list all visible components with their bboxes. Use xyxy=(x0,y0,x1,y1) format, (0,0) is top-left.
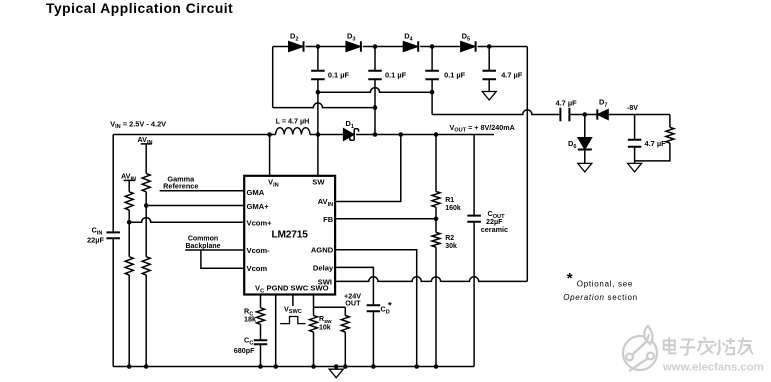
svg-text:OUT: OUT xyxy=(345,299,361,308)
wire COUT to bus xyxy=(473,223,475,367)
svg-text:LM2715: LM2715 xyxy=(272,230,309,241)
wire R2 to bus xyxy=(435,247,437,366)
wire divider1 mid xyxy=(145,192,147,257)
wire D7 anode to -8V rail xyxy=(608,114,670,116)
svg-text:Reference: Reference xyxy=(163,181,198,190)
resistor R2 30k xyxy=(432,232,440,247)
node FB divider tap xyxy=(434,217,439,222)
svg-text:Common: Common xyxy=(188,236,218,243)
svg-text:R1: R1 xyxy=(445,197,454,204)
wire divider2 to bus xyxy=(128,275,130,367)
node GMA+ tap xyxy=(144,203,149,208)
wire FB to divider xyxy=(335,218,436,220)
node VIN pin junction xyxy=(267,132,272,137)
resistor R1 160k xyxy=(432,192,440,208)
wire common backplane L to Vcom xyxy=(201,250,244,268)
wire cap C5 to ground xyxy=(488,80,490,92)
node PGND bus xyxy=(273,364,278,369)
wire R1 top xyxy=(435,135,437,192)
capacitor 0.1uF first xyxy=(311,71,325,80)
resistor divider2 lower xyxy=(125,257,133,275)
ground main bus xyxy=(329,369,343,378)
ground -8V cap xyxy=(628,163,642,172)
resistor +24V load xyxy=(341,316,349,333)
wire D6 to ground xyxy=(584,151,586,164)
svg-text:4.7 µF: 4.7 µF xyxy=(556,99,578,108)
wire CC to bus xyxy=(260,345,262,367)
svg-text:PGND SWC SWO: PGND SWC SWO xyxy=(267,284,329,293)
line B vout rail xyxy=(273,103,375,108)
svg-text:4.7 µF: 4.7 µF xyxy=(501,70,523,79)
wire RSW to bus xyxy=(313,332,315,367)
diode D7 xyxy=(597,109,608,119)
wire Vcom- common backplane xyxy=(185,249,244,251)
node line A right xyxy=(430,90,435,95)
inductor L 4.7uH xyxy=(276,128,310,135)
diode D6 xyxy=(578,138,592,150)
wire left rail lower xyxy=(112,239,114,367)
wire -8V rail corner down xyxy=(669,115,671,128)
wire SWO pin xyxy=(313,295,315,308)
node line A left xyxy=(316,90,321,95)
watermark chinese text dian zi fa shao you xyxy=(664,337,753,355)
diode D4 xyxy=(403,41,418,51)
SWC pulse waveform symbol xyxy=(280,317,306,324)
wire cap C2 top xyxy=(317,47,319,71)
resistor RSW 10k xyxy=(310,316,318,333)
node divider2 bus xyxy=(127,364,132,369)
node ground symbol bus xyxy=(334,364,339,369)
capacitor 4.7uF series xyxy=(560,108,569,122)
resistor divider1 lower xyxy=(142,257,150,275)
svg-text:-8V: -8V xyxy=(627,105,638,112)
node AVIN vout junction xyxy=(399,132,404,137)
wire AVIN2 stem xyxy=(128,180,130,191)
wire RC to CC xyxy=(260,324,262,339)
svg-text:Delay: Delay xyxy=(313,263,334,272)
capacitor 4.7uF -8V xyxy=(628,140,642,147)
wire PGND pin xyxy=(275,295,277,367)
wire ground symbol stem xyxy=(335,367,337,370)
diode D2 xyxy=(289,41,304,51)
wire D2 cathode to node xyxy=(306,46,346,48)
svg-text:160k: 160k xyxy=(445,205,461,212)
wire GMA gamma reference xyxy=(160,190,245,192)
wire cap C3 top xyxy=(374,47,376,71)
wire divider2 mid xyxy=(128,210,130,257)
capacitor 0.1uF third xyxy=(425,71,439,80)
watermark logo circle xyxy=(623,326,657,371)
node VC bus xyxy=(258,364,263,369)
wire D4 cathode to node xyxy=(420,46,460,48)
svg-text:ceramic: ceramic xyxy=(481,225,508,234)
svg-text:10k: 10k xyxy=(319,325,331,332)
node line B right xyxy=(373,105,378,110)
wire CD to bus xyxy=(372,312,374,367)
wire SWO to RSW xyxy=(313,307,315,315)
svg-text:30k: 30k xyxy=(445,243,457,250)
wire -8V cap to ground xyxy=(634,148,636,164)
diode D1 schottky xyxy=(343,128,354,140)
svg-text:4.7 µF: 4.7 µF xyxy=(645,139,667,148)
node vout-lineB junction xyxy=(373,132,378,137)
wire SWI xyxy=(335,277,527,282)
svg-text:FB: FB xyxy=(323,215,334,224)
wire inductor to SW node xyxy=(310,134,343,136)
node R1 vout junction xyxy=(434,132,439,137)
wire COUT top xyxy=(473,135,475,216)
wire D2 anode drop xyxy=(272,47,274,108)
resistor divider1 upper xyxy=(142,174,150,192)
wire AGND xyxy=(335,250,417,367)
svg-text:GMA+: GMA+ xyxy=(247,202,270,211)
capacitor CIN 22uF xyxy=(106,232,120,238)
wire AVIN1 stem xyxy=(145,144,147,174)
node R2 bus xyxy=(434,364,439,369)
node D2-D3 junction xyxy=(316,44,321,49)
wire AVIN pin to VOUT xyxy=(335,135,401,202)
svg-text:18k: 18k xyxy=(244,315,256,324)
svg-text:Vcom+: Vcom+ xyxy=(247,218,273,227)
svg-text:SW: SW xyxy=(312,177,325,186)
wire node to D6 xyxy=(584,115,586,138)
wire GMA+ tap xyxy=(146,205,244,207)
wire pump output to SWI riser xyxy=(526,47,528,282)
wire resistor return xyxy=(635,143,670,161)
svg-text:www.elecfans.com: www.elecfans.com xyxy=(662,362,764,374)
wire +24V load resistor top xyxy=(344,307,346,315)
wire top chain left segment xyxy=(273,46,289,48)
svg-text:R2: R2 xyxy=(445,235,454,242)
wire R1 bottom xyxy=(435,207,437,232)
wire Vcom+ tap xyxy=(129,218,244,223)
op-amp U1 LM2715 box xyxy=(244,176,335,295)
ground D6 xyxy=(578,163,592,172)
svg-text:AGND: AGND xyxy=(311,246,334,255)
svg-text:Operation section: Operation section xyxy=(563,293,638,302)
svg-text:Optional, see: Optional, see xyxy=(577,279,633,288)
svg-text:Backplane: Backplane xyxy=(185,243,220,250)
wire cap C2 bottom to line A xyxy=(317,80,319,92)
wire cap C4 top xyxy=(431,47,433,71)
AVIN flag bar 2 xyxy=(124,179,135,181)
diode D5 xyxy=(461,41,476,51)
svg-text:*: * xyxy=(567,270,573,287)
wire VIN rail xyxy=(113,134,275,136)
wire SWC stub xyxy=(292,295,294,306)
svg-text:22µF: 22µF xyxy=(87,235,104,244)
node Vcom+ tap xyxy=(127,220,132,225)
capacitor 4.7uF pump output xyxy=(482,71,496,80)
resistor divider2 upper xyxy=(125,192,133,210)
node negative pump xyxy=(583,112,588,117)
svg-text:Typical Application Circuit: Typical Application Circuit xyxy=(46,1,233,16)
node +24V bus xyxy=(343,364,348,369)
capacitor CC 680pF xyxy=(254,340,268,344)
node CD bus xyxy=(371,364,376,369)
wire divider1 to bus xyxy=(145,275,147,367)
svg-text:0.1 µF: 0.1 µF xyxy=(444,70,466,79)
wire cap C5 top xyxy=(488,47,490,71)
line A phase rail xyxy=(318,88,432,93)
wire VIN pin xyxy=(269,135,271,176)
svg-text:*: * xyxy=(388,301,392,312)
wire D1 to VOUT line xyxy=(356,134,494,136)
node D4-D5 junction xyxy=(430,44,435,49)
wire +24V branch xyxy=(314,306,346,308)
node SW-L-D1 xyxy=(316,132,321,137)
svg-text:Vcom-: Vcom- xyxy=(247,246,271,255)
resistor -8V load xyxy=(666,127,674,143)
diode D3 xyxy=(346,41,361,51)
wire D3 cathode to node xyxy=(363,46,403,48)
svg-text:GMA: GMA xyxy=(247,188,265,197)
resistor RC 18k xyxy=(257,308,265,325)
wire Delay to CD xyxy=(335,267,373,304)
wire SW riser xyxy=(317,92,319,176)
node divider1 bus xyxy=(144,364,149,369)
node D3-D4 junction xyxy=(373,44,378,49)
svg-text:Vcom: Vcom xyxy=(247,264,268,273)
wire VC pin xyxy=(260,295,262,308)
wire +24V load to bus xyxy=(344,332,346,367)
wire cap C3 bottom to vout xyxy=(374,80,376,135)
wire series cap to node xyxy=(569,114,597,116)
line C to negative pump xyxy=(432,110,560,115)
node D5 output xyxy=(487,44,492,49)
svg-text:0.1 µF: 0.1 µF xyxy=(385,70,407,79)
AVIN flag bar 1 xyxy=(141,143,152,145)
capacitor CD xyxy=(367,305,381,311)
node RSW bus xyxy=(311,364,316,369)
svg-text:L = 4.7 µH: L = 4.7 µH xyxy=(276,116,310,125)
capacitor COUT xyxy=(467,216,481,222)
node AGND bus xyxy=(414,364,419,369)
wire -8V cap top xyxy=(634,115,636,140)
wire cap C4 bottom to line C xyxy=(431,80,433,115)
capacitor 0.1uF second xyxy=(368,71,382,80)
wire ground bus xyxy=(113,366,474,368)
svg-text:680pF: 680pF xyxy=(234,346,255,355)
wire left rail upper xyxy=(112,135,114,232)
wire D5 cathode to right corner xyxy=(478,46,528,48)
ground pump output cap xyxy=(482,92,496,101)
svg-text:0.1 µF: 0.1 µF xyxy=(328,70,350,79)
